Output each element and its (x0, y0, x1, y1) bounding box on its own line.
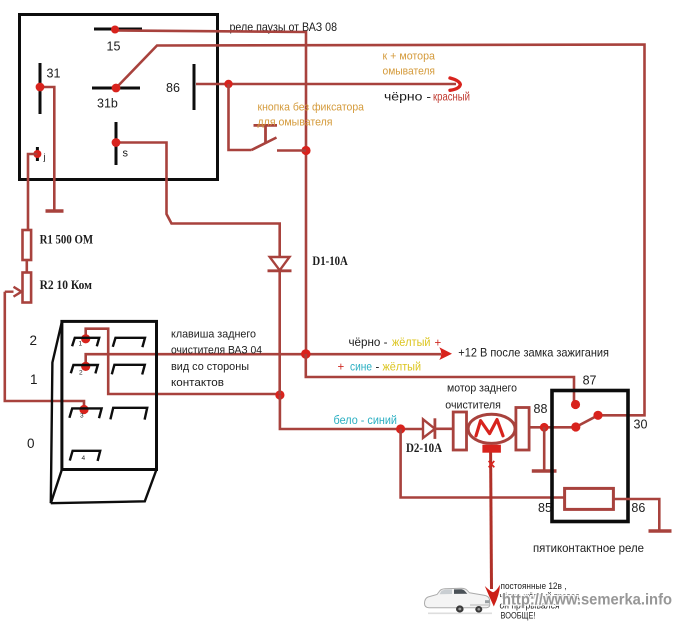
node: junction on 86 wire (224, 80, 232, 88)
wire: pin s to D1 (116, 143, 280, 257)
arrow: to washer motor (450, 78, 460, 90)
node: pin s dot (112, 138, 121, 147)
svg-text:бело - синий: бело - синий (334, 415, 398, 427)
ground bar (532, 469, 557, 473)
svg-text:вид со стороны: вид со стороны (171, 361, 249, 373)
svg-text:-: - (376, 362, 380, 374)
motor commutator block (482, 445, 501, 453)
svg-text:клавиша заднего: клавиша заднего (171, 329, 256, 341)
node: key row3 dot (79, 405, 88, 414)
svg-text:чёрно -: чёрно - (349, 337, 388, 349)
wire: pin j to R1 (28, 154, 37, 230)
key switch left slant edge (51, 322, 62, 504)
pin j bar (36, 147, 39, 161)
pin 31 bar (39, 63, 42, 114)
wire: motor bottom to battery arrow (489, 453, 493, 590)
diode D1 (270, 257, 290, 270)
wire: R1 to R2 (25, 260, 28, 273)
switch SW1 actuator bar (254, 124, 278, 127)
svg-text:31b: 31b (97, 97, 118, 111)
node: relay pin30 contact dot (593, 411, 602, 420)
ground bar right (649, 529, 672, 533)
arrow: +12 V (439, 347, 452, 360)
svg-text:постоянные 12в ,: постоянные 12в , (501, 581, 567, 591)
svg-text:D1-10А: D1-10А (312, 254, 347, 268)
switch SW1 blade (кнопка) (252, 138, 277, 151)
svg-text:очистителя: очистителя (445, 399, 501, 411)
svg-text:к + мотора: к + мотора (383, 51, 436, 63)
contact staple row1 right (113, 338, 145, 347)
svg-text:D2-10A: D2-10A (406, 441, 442, 455)
node: +12 line junction dot (301, 349, 311, 359)
svg-text:30: 30 (634, 418, 648, 432)
contact staple row2 right (112, 365, 145, 375)
wire: junction down and right to relay pin87 (306, 354, 574, 405)
wire: button branch (229, 84, 252, 150)
key switch 3D box front face (62, 321, 157, 469)
diode D2 (423, 419, 435, 438)
svg-text:чёрно -: чёрно - (384, 92, 431, 104)
pin 31b bar (92, 87, 140, 90)
svg-text:жёлтый: жёлтый (383, 362, 422, 374)
svg-text:4: 4 (82, 455, 86, 462)
svg-text:j: j (43, 152, 46, 163)
node: key row2 dot (81, 362, 90, 371)
motor M1 right brush terminal (516, 408, 529, 451)
pin 86 bar (193, 64, 196, 110)
svg-text:1: 1 (79, 341, 83, 348)
svg-text:2: 2 (79, 369, 83, 376)
svg-text:омывателя: омывателя (383, 66, 436, 78)
svg-text:0: 0 (27, 436, 35, 451)
svg-text:R2 10 Ком: R2 10 Ком (40, 277, 93, 292)
svg-text:85: 85 (538, 501, 552, 515)
svg-text:+: + (338, 362, 345, 374)
svg-text:мотор заднего: мотор заднего (447, 383, 517, 395)
node: relay pivot dot (571, 422, 580, 431)
wire: motor right terminal to relay pivot (529, 426, 576, 429)
car illustration (425, 588, 493, 613)
key switch bottom edge (51, 470, 157, 504)
wire: D2 to motor left terminal (435, 427, 453, 430)
node: button fixed contact dot (301, 146, 310, 155)
tiny x mark on wire (489, 461, 495, 467)
svg-text:контактов: контактов (171, 377, 224, 389)
wire: D1 to bottom junction (278, 271, 281, 394)
node: pin31 dot (36, 83, 45, 92)
svg-text:+12 В после замка зажигания: +12 В после замка зажигания (458, 346, 609, 360)
svg-text:15: 15 (107, 40, 121, 54)
wire: D1 node down to белo-синий line, to D2 (280, 395, 423, 429)
svg-text:пятиконтактное реле: пятиконтактное реле (533, 541, 644, 555)
wire: pin31b diagonal, top run, right side down to relay pin30 (116, 45, 645, 416)
svg-text:сине: сине (350, 362, 372, 374)
svg-text:3: 3 (80, 413, 84, 420)
switch SW1 actuator stem (264, 125, 267, 143)
contact staple row2 left (71, 365, 98, 373)
motor M letter (476, 420, 503, 436)
svg-text:очистителя ВАЗ 04: очистителя ВАЗ 04 (171, 344, 262, 356)
svg-text:ВООБЩЕ!: ВООБЩЕ! (501, 611, 536, 621)
relay K2 five-pin box (552, 391, 628, 522)
svg-text:86: 86 (631, 501, 645, 515)
resistor R2 (23, 273, 32, 303)
svg-text:2: 2 (30, 333, 38, 348)
contact staple row3 right (110, 408, 147, 420)
svg-text:1: 1 (30, 372, 38, 387)
node: D1 bottom junction dot (275, 390, 284, 399)
wire: бело-синий junction down to 85 line into coil (401, 429, 565, 498)
wire: button fixed contact (277, 149, 306, 152)
R2 wiper arrow (5, 287, 22, 297)
wire: pin86 to washer-motor arrow (196, 83, 456, 86)
contact staple row3 left (69, 408, 101, 418)
svg-text:кнопка без фиксатора: кнопка без фиксатора (258, 102, 365, 114)
motor M1 body (468, 414, 515, 443)
arrow head down (485, 585, 500, 607)
terminal bar under pin31 wire (46, 209, 64, 213)
node: key row1 dot (81, 334, 90, 343)
resistor R1 (23, 230, 32, 260)
node: бело-синий junction dot (396, 424, 405, 433)
svg-text:жёлтый: жёлтый (392, 337, 431, 349)
svg-text:красный: красный (433, 92, 470, 104)
contact staple row1 left (72, 338, 99, 347)
node: pin31b dot (112, 84, 121, 93)
wire: left rail from R2 wiper down to key row3 (5, 292, 84, 409)
wire: coil to right ground (614, 499, 660, 531)
svg-text:31: 31 (47, 67, 61, 81)
svg-text:86: 86 (166, 81, 180, 95)
svg-text:88: 88 (534, 402, 548, 416)
wire: pin15 to node over button, down to +12 junction (115, 31, 306, 355)
svg-text:R1 500 ОМ: R1 500 ОМ (40, 232, 94, 247)
node: dot before relay (540, 423, 549, 432)
contact staple row4 (70, 451, 100, 461)
motor M1 left brush terminal (453, 412, 466, 450)
relay coil (565, 488, 614, 509)
svg-text:http://www.semerka.info: http://www.semerka.info (502, 592, 672, 609)
wire: key row2 up to +12 line (86, 354, 441, 366)
relay blade (576, 415, 598, 427)
relay U1 pause-relay box (20, 15, 218, 180)
wire: key row1 to D1 bottom node (86, 329, 280, 394)
pin s bar (115, 122, 118, 165)
svg-text:для омывателя: для омывателя (258, 117, 333, 129)
svg-text:+: + (435, 338, 442, 350)
pin 15 bar (94, 28, 142, 31)
node: pin15 dot (111, 26, 119, 34)
node: pin j dot (33, 150, 41, 158)
key switch bottom-left diagonal (51, 470, 62, 504)
svg-text:s: s (123, 148, 129, 160)
svg-text:87: 87 (583, 374, 597, 388)
node: relay pin87 dot (571, 400, 580, 409)
wire: ground drop from dot (543, 427, 546, 471)
wire: pin31 down to stub bar (40, 87, 54, 211)
